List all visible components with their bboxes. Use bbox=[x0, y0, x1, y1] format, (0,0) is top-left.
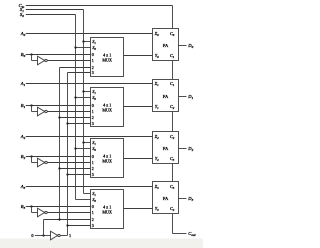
svg-text:C2: C2 bbox=[170, 104, 175, 110]
node S1 bus junction row3 bbox=[82, 141, 84, 143]
wire B3 branch down to inverter bbox=[32, 207, 38, 213]
wire B0 branch down to inverter bbox=[32, 55, 38, 61]
wire B3-not to MUX4 pin 1 bbox=[47, 212, 90, 214]
wire constant-0 line bbox=[35, 235, 51, 237]
svg-text:S0: S0 bbox=[92, 95, 96, 101]
svg-text:3: 3 bbox=[92, 223, 94, 228]
wire B2 to MUX3 pin 0 bbox=[26, 156, 91, 158]
wire B2-not to MUX3 pin 1 bbox=[47, 162, 90, 164]
wire MUX4 output to FA4 Y input bbox=[124, 208, 153, 210]
node S0 bus junction row2 bbox=[74, 96, 76, 98]
wire C4 down and right to C_out bbox=[173, 214, 187, 234]
svg-text:0: 0 bbox=[92, 154, 94, 159]
svg-text:1: 1 bbox=[69, 233, 71, 238]
svg-text:X0: X0 bbox=[154, 31, 160, 37]
inverter B0-not bbox=[38, 56, 48, 65]
wire S1 tap row4 bbox=[84, 193, 91, 195]
output label D_2 bbox=[187, 146, 193, 152]
wire 0 tap row4 bbox=[44, 219, 91, 221]
wire S0 tap row4 bbox=[76, 199, 91, 201]
node 1-bus junction row2 bbox=[66, 122, 68, 124]
wire A3 to FA4 X input bbox=[26, 186, 153, 188]
wire A0 to FA1 X input bbox=[26, 33, 153, 35]
output label D_0 bbox=[187, 43, 193, 49]
wire carry C3 chain vertical bbox=[172, 164, 174, 182]
input label S_1 bbox=[20, 7, 24, 13]
node 0-bus junction row2 bbox=[58, 116, 60, 118]
svg-text:2: 2 bbox=[92, 166, 94, 171]
wire 1 tap row1 bbox=[68, 72, 91, 74]
svg-text:FA: FA bbox=[163, 146, 169, 151]
wire carry C2 chain vertical bbox=[172, 112, 174, 132]
wire A1 to FA2 X input bbox=[26, 83, 153, 85]
svg-text:D0: D0 bbox=[187, 43, 193, 49]
wire MUX1 output to FA1 Y input bbox=[124, 55, 153, 57]
svg-text:A2: A2 bbox=[20, 134, 26, 140]
wire S1 horizontal bbox=[26, 9, 84, 11]
svg-text:Cout: Cout bbox=[188, 231, 195, 237]
svg-text:A1: A1 bbox=[20, 81, 26, 87]
wire B2 branch down to inverter bbox=[32, 157, 38, 163]
node junction B2 bbox=[30, 155, 32, 157]
wire 1 tap row4 bbox=[68, 225, 91, 227]
svg-text:C2: C2 bbox=[170, 134, 175, 140]
node junction on 0 line bbox=[42, 234, 44, 236]
svg-text:A3: A3 bbox=[20, 184, 26, 190]
svg-text:MUX: MUX bbox=[102, 159, 112, 164]
svg-text:S1: S1 bbox=[92, 89, 96, 95]
node junction B0 bbox=[30, 53, 32, 55]
svg-text:D2: D2 bbox=[187, 146, 193, 152]
node junction B1 bbox=[30, 104, 32, 106]
wire MUX2 output to FA2 Y input bbox=[124, 106, 153, 108]
input label A_2 bbox=[20, 134, 26, 140]
svg-text:B2: B2 bbox=[21, 154, 26, 160]
input label B_3 bbox=[21, 204, 26, 210]
full adder FA1 bbox=[153, 29, 179, 61]
wire B3 to MUX4 pin 0 bbox=[26, 206, 91, 208]
svg-text:0: 0 bbox=[92, 103, 94, 108]
wire 0 vertical to MUX4 pin2 line bbox=[43, 220, 45, 236]
input label A_0 bbox=[20, 31, 26, 37]
svg-text:FA: FA bbox=[163, 94, 169, 99]
svg-text:3: 3 bbox=[92, 70, 94, 75]
multiplexer MUX3 4x1 bbox=[91, 139, 124, 178]
multiplexer MUX2 4x1 bbox=[91, 88, 124, 127]
wire D1 output bbox=[179, 96, 187, 98]
wire 1 tap row2 bbox=[68, 123, 91, 125]
wire S1 tap row2 bbox=[84, 91, 91, 93]
svg-text:S0: S0 bbox=[92, 45, 96, 51]
svg-text:X3: X3 bbox=[154, 184, 160, 190]
svg-text:Y3: Y3 bbox=[155, 206, 159, 212]
wire S1 tap row1 bbox=[84, 41, 91, 43]
svg-text:2: 2 bbox=[92, 217, 94, 222]
input label C_in bbox=[19, 3, 25, 9]
svg-text:0: 0 bbox=[92, 52, 94, 57]
svg-text:C1: C1 bbox=[170, 53, 175, 59]
svg-text:C0: C0 bbox=[170, 31, 175, 37]
input label S_0 bbox=[20, 12, 24, 18]
input label B_2 bbox=[21, 154, 26, 160]
full adder FA3 bbox=[153, 132, 179, 164]
wire S0 tap row3 bbox=[76, 148, 91, 150]
input label A_1 bbox=[20, 81, 26, 87]
node junction B3 bbox=[30, 205, 32, 207]
output label D_3 bbox=[187, 196, 193, 202]
svg-text:S0: S0 bbox=[92, 197, 96, 203]
wire C_in vertical drop to FA1 carry input bbox=[172, 6, 174, 29]
wire B1-not to MUX2 pin 1 bbox=[47, 111, 90, 113]
output label D_1 bbox=[187, 94, 193, 100]
svg-text:0: 0 bbox=[92, 204, 94, 209]
wire S1 vertical bus bbox=[83, 10, 85, 194]
wire S1 tap row3 bbox=[84, 142, 91, 144]
svg-text:1: 1 bbox=[92, 210, 94, 215]
svg-text:1: 1 bbox=[92, 58, 94, 63]
inverter B3-not bbox=[38, 208, 48, 217]
wire B0-not to MUX1 pin 1 bbox=[47, 60, 90, 62]
svg-text:MUX: MUX bbox=[102, 108, 112, 113]
svg-text:D3: D3 bbox=[187, 196, 193, 202]
svg-text:Y1: Y1 bbox=[155, 104, 159, 110]
wire S0 tap row2 bbox=[76, 97, 91, 99]
wire 1 tap row3 bbox=[68, 174, 91, 176]
svg-text:C3: C3 bbox=[170, 184, 175, 190]
multiplexer MUX4 4x1 bbox=[91, 190, 124, 229]
wire 0 tap row2 bbox=[60, 117, 91, 119]
svg-text:3: 3 bbox=[92, 121, 94, 126]
wire B0 to MUX1 pin 0 bbox=[26, 54, 91, 56]
wire B1 branch down to inverter bbox=[32, 106, 38, 112]
multiplexer MUX1 4x1 bbox=[91, 38, 124, 77]
wire D3 output bbox=[179, 198, 187, 200]
constant label 1 bbox=[69, 233, 71, 238]
svg-text:MUX: MUX bbox=[102, 210, 112, 215]
wire 0 bus vertical bbox=[59, 68, 61, 220]
svg-text:MUX: MUX bbox=[102, 58, 112, 63]
full adder FA4 bbox=[153, 182, 179, 214]
svg-text:Y2: Y2 bbox=[155, 156, 159, 162]
input label B_0 bbox=[21, 52, 26, 58]
svg-text:A0: A0 bbox=[20, 31, 26, 37]
node 0-bus junction row3 bbox=[58, 167, 60, 169]
svg-text:B0: B0 bbox=[21, 52, 26, 58]
svg-text:S0: S0 bbox=[92, 146, 96, 152]
node S1 bus junction row2 bbox=[82, 90, 84, 92]
svg-text:X1: X1 bbox=[154, 81, 160, 87]
svg-text:1: 1 bbox=[92, 109, 94, 114]
inverter B2-not bbox=[38, 158, 48, 167]
wire C_in horizontal bbox=[26, 5, 173, 7]
wire MUX3 output to FA3 Y input bbox=[124, 158, 153, 160]
svg-text:2: 2 bbox=[92, 115, 94, 120]
svg-text:3: 3 bbox=[92, 172, 94, 177]
svg-text:1: 1 bbox=[92, 160, 94, 165]
wire bottom inverter output to 1 bus bbox=[60, 235, 67, 237]
node S0 bus junction row1 bbox=[74, 46, 76, 48]
wire D2 output bbox=[179, 148, 187, 150]
svg-text:S1: S1 bbox=[92, 191, 96, 197]
node S1 bus junction row1 bbox=[82, 40, 84, 42]
wire S0 vertical bus bbox=[75, 15, 77, 200]
inverter B1-not bbox=[38, 107, 48, 116]
constant label 0 bbox=[31, 233, 33, 238]
svg-text:D1: D1 bbox=[187, 94, 193, 100]
wire S0 horizontal bbox=[26, 14, 76, 16]
wire B1 to MUX2 pin 0 bbox=[26, 105, 91, 107]
svg-text:FA: FA bbox=[163, 43, 169, 48]
svg-text:C3: C3 bbox=[170, 156, 175, 162]
svg-text:S0: S0 bbox=[20, 12, 24, 18]
wire 0 tap row1 bbox=[60, 67, 91, 69]
output label C_out bbox=[188, 231, 195, 237]
svg-text:FA: FA bbox=[163, 196, 169, 201]
wire 0 tap row3 bbox=[60, 168, 91, 170]
wire D0 output bbox=[179, 45, 187, 47]
svg-text:Y0: Y0 bbox=[155, 53, 159, 59]
node S0 bus junction row3 bbox=[74, 147, 76, 149]
wire S0 tap row1 bbox=[76, 47, 91, 49]
input label A_3 bbox=[20, 184, 26, 190]
svg-text:0: 0 bbox=[31, 233, 33, 238]
svg-text:X2: X2 bbox=[154, 134, 160, 140]
full adder FA2 bbox=[153, 80, 179, 112]
svg-text:S1: S1 bbox=[92, 39, 96, 45]
svg-text:B3: B3 bbox=[21, 204, 26, 210]
node 1-bus junction row3 bbox=[66, 173, 68, 175]
wire A2 to FA3 X input bbox=[26, 136, 153, 138]
scan margin band at bottom bbox=[0, 239, 203, 248]
inverter bottom 0-to-1 bbox=[51, 231, 61, 240]
input label B_1 bbox=[21, 103, 26, 109]
wire carry C1 chain vertical bbox=[172, 61, 174, 80]
node 1-bus junction row4 bbox=[66, 224, 68, 226]
node 0-bus junction row4 bbox=[58, 218, 60, 220]
svg-text:C4: C4 bbox=[170, 206, 175, 212]
svg-text:C1: C1 bbox=[170, 81, 175, 87]
svg-text:B1: B1 bbox=[21, 103, 26, 109]
wire 1 bus vertical bbox=[67, 73, 69, 236]
svg-text:S1: S1 bbox=[92, 140, 96, 146]
